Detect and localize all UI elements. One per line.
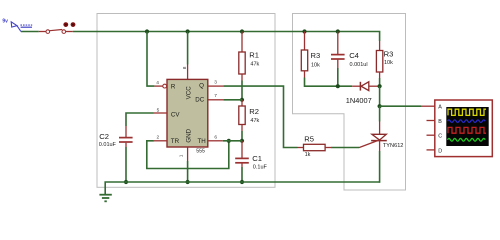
wire to VCC pin 8 (187, 32, 189, 65)
wire R3b node down to scope node (379, 86, 381, 106)
wire C4 bottom to diode row (337, 68, 339, 86)
node C2 / bottom rail (124, 180, 128, 184)
node TR loop / TH wire (227, 139, 231, 143)
resistor R5 (298, 135, 332, 159)
svg-text:10k: 10k (384, 60, 393, 66)
svg-text:0.1uF: 0.1uF (253, 164, 268, 170)
node top rail / C4 branch (336, 29, 340, 33)
svg-text:10k: 10k (311, 62, 320, 68)
svg-text:C4: C4 (349, 51, 359, 60)
node top rail / R3a branch (302, 29, 306, 33)
waveform C red square (448, 127, 486, 133)
wire C1 bottom to rail (241, 167, 243, 182)
svg-text:2: 2 (157, 134, 160, 140)
capacitor C2 (99, 126, 133, 148)
waveform B blue wave (448, 120, 486, 123)
ground (99, 195, 111, 202)
node C4 / diode row (336, 84, 340, 88)
svg-text:47k: 47k (250, 61, 259, 67)
battery BAT1 9v (2, 19, 32, 32)
capacitor C4 (331, 32, 368, 69)
wire node to thyristor anode (379, 106, 381, 121)
svg-text:1: 1 (179, 154, 185, 157)
wire Q pin 3 to R5 (208, 85, 224, 87)
svg-text:6: 6 (214, 135, 217, 141)
svg-text:R3: R3 (311, 51, 321, 60)
svg-text:A: A (438, 105, 442, 111)
svg-text:CV: CV (171, 111, 180, 118)
wire TH pin 6 (208, 140, 223, 142)
svg-text:0.001ul: 0.001ul (350, 62, 368, 68)
wire C2 bottom to ground rail (125, 147, 127, 182)
wire TR pin 2 loop to TH (154, 140, 167, 142)
waveform A yellow square (448, 109, 486, 115)
capacitor C1 (235, 141, 267, 171)
wire R1 bottom to DC node (241, 81, 243, 100)
node top rail / R1 branch (240, 29, 244, 33)
wire R3b bottom to node (379, 78, 381, 86)
oscilloscope (427, 100, 493, 157)
thyristor Q1 TYN612 (359, 134, 403, 151)
svg-text:3: 3 (214, 80, 217, 86)
wire CV pin 5 to C2 (154, 112, 167, 114)
svg-text:B: B (438, 119, 442, 125)
svg-text:R1: R1 (249, 50, 259, 59)
wire scope A channel (380, 105, 421, 107)
svg-text:0.01uF: 0.01uF (99, 142, 117, 148)
node top rail / VCC branch (186, 29, 190, 33)
switch actuator dots (63, 22, 75, 27)
subcircuit boundary left (97, 14, 275, 188)
resistor R3 (left) (301, 32, 320, 78)
node anode / scope A (378, 104, 382, 108)
wire R3a bottom to diode row (305, 78, 353, 87)
wire battery to switch (21, 31, 39, 33)
wire cathode to bottom rail (379, 151, 381, 183)
svg-text:R2: R2 (249, 107, 259, 116)
node DC / pin 7 (240, 98, 244, 102)
svg-text:DC: DC (195, 96, 204, 103)
node C1 / bottom rail (240, 180, 244, 184)
wire R5 to gate (331, 147, 359, 149)
diode D1 1N4007 (346, 82, 380, 105)
svg-text:47k: 47k (250, 118, 259, 124)
wire GND pin 1 to bottom rail (187, 147, 189, 161)
svg-text:1N4007: 1N4007 (346, 96, 372, 105)
svg-text:C2: C2 (99, 132, 109, 141)
svg-text:TR: TR (171, 138, 180, 145)
subcircuit boundary right (L-shape) (293, 14, 406, 191)
svg-text:7: 7 (214, 93, 217, 99)
svg-text:C: C (438, 134, 442, 140)
node TH (240, 139, 244, 143)
resistor R3 (right) (376, 41, 393, 78)
node top rail / pin4 branch (145, 29, 149, 33)
resistor R2 (239, 100, 260, 131)
waveform D green sine (448, 138, 486, 141)
svg-text:TYN612: TYN612 (383, 143, 404, 149)
svg-text:4: 4 (156, 80, 159, 86)
svg-text:TH: TH (197, 138, 205, 145)
wire to R pin of U1 (147, 32, 154, 87)
svg-text:555: 555 (196, 148, 205, 154)
wire R2 bottom to TH node (241, 131, 243, 141)
svg-text:R3: R3 (384, 49, 394, 58)
svg-text:GND: GND (186, 128, 193, 142)
svg-text:D: D (438, 148, 442, 154)
555 IC U1 (163, 79, 208, 154)
node GND / bottom rail (186, 180, 190, 184)
node diode / R3b (378, 84, 382, 88)
svg-text:Q: Q (199, 83, 204, 90)
svg-text:9v: 9v (2, 19, 8, 25)
resistor R1 (239, 32, 260, 81)
svg-text:VCC: VCC (186, 86, 193, 100)
svg-text:1k: 1k (305, 152, 311, 158)
svg-text:R: R (171, 83, 176, 90)
wire top rail (73, 32, 380, 42)
wire bottom ground rail (105, 182, 379, 194)
svg-text:8: 8 (182, 66, 188, 69)
svg-text:R5: R5 (304, 135, 314, 144)
switch SW1 (39, 30, 73, 34)
wire DC node to pin 7 (223, 99, 242, 101)
svg-text:C1: C1 (252, 154, 262, 163)
